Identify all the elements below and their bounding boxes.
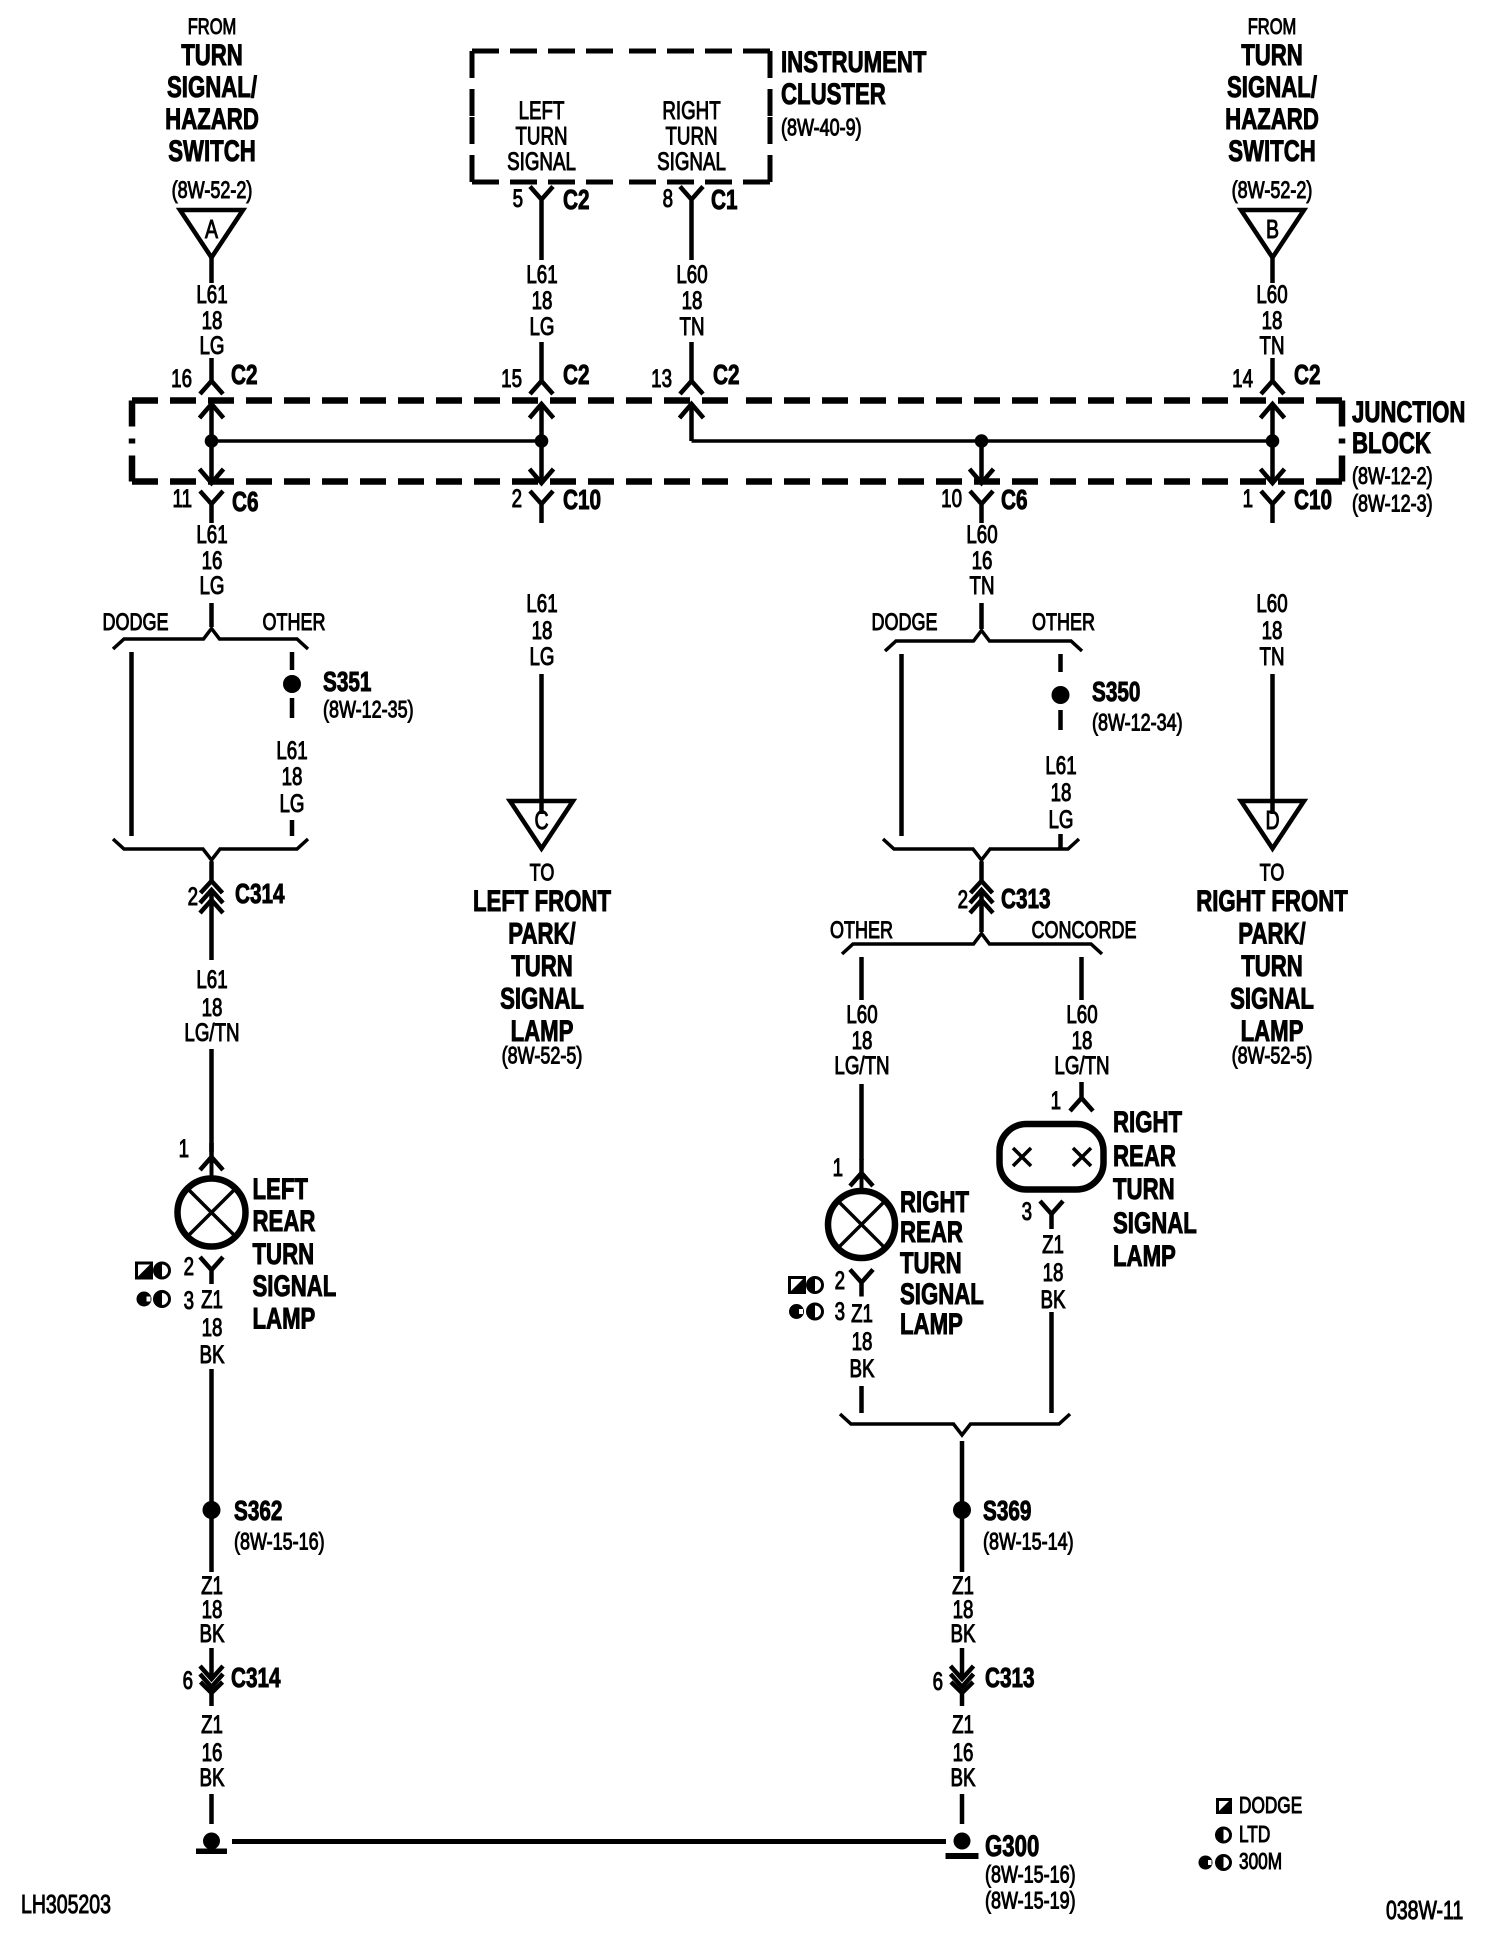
svg-text:TURN: TURN [900, 1246, 962, 1280]
svg-text:LG: LG [200, 331, 225, 359]
svg-text:LG: LG [530, 642, 555, 670]
svg-text:L60: L60 [1066, 1000, 1097, 1028]
svg-text:18: 18 [1051, 778, 1072, 806]
svg-text:L60: L60 [676, 260, 707, 288]
svg-text:2: 2 [958, 885, 968, 913]
svg-text:L60: L60 [966, 520, 997, 548]
svg-text:RIGHT: RIGHT [662, 96, 720, 124]
svg-text:S369: S369 [983, 1496, 1031, 1527]
svg-text:1: 1 [179, 1134, 189, 1162]
svg-text:(8W-52-5): (8W-52-5) [1232, 1043, 1313, 1069]
svg-text:LH305203: LH305203 [21, 1889, 111, 1918]
svg-text:HAZARD: HAZARD [165, 102, 259, 136]
svg-text:C10: C10 [1294, 485, 1332, 516]
svg-text:18: 18 [532, 286, 553, 314]
svg-text:11: 11 [173, 484, 192, 512]
svg-text:(8W-12-35): (8W-12-35) [323, 697, 414, 723]
svg-text:FROM: FROM [1248, 15, 1297, 40]
svg-text:LG: LG [1049, 805, 1074, 833]
svg-text:DODGE: DODGE [872, 610, 938, 636]
svg-text:300M: 300M [1239, 1850, 1282, 1875]
svg-text:L60: L60 [846, 1000, 877, 1028]
svg-text:C: C [534, 805, 548, 834]
svg-text:SIGNAL: SIGNAL [1230, 981, 1314, 1015]
svg-text:CLUSTER: CLUSTER [781, 77, 886, 111]
svg-text:L61: L61 [1045, 751, 1076, 779]
svg-text:TN: TN [680, 312, 705, 340]
svg-text:6: 6 [933, 1667, 943, 1695]
svg-text:BK: BK [850, 1354, 875, 1382]
svg-text:C6: C6 [1001, 485, 1027, 516]
svg-text:B: B [1266, 214, 1279, 243]
svg-text:8: 8 [663, 184, 673, 212]
svg-text:TURN: TURN [181, 38, 243, 72]
svg-text:L61: L61 [526, 260, 557, 288]
svg-text:18: 18 [532, 616, 553, 644]
svg-text:BLOCK: BLOCK [1352, 426, 1431, 460]
svg-text:OTHER: OTHER [830, 918, 893, 944]
svg-text:(8W-52-2): (8W-52-2) [172, 178, 253, 204]
svg-text:(8W-15-19): (8W-15-19) [985, 1888, 1076, 1914]
svg-text:SWITCH: SWITCH [1228, 134, 1316, 168]
svg-text:LG: LG [200, 571, 225, 599]
svg-text:C10: C10 [563, 485, 601, 516]
svg-text:18: 18 [1043, 1258, 1064, 1286]
svg-text:Z1: Z1 [952, 1710, 974, 1738]
svg-text:Z1: Z1 [1042, 1230, 1064, 1258]
svg-text:CONCORDE: CONCORDE [1032, 918, 1137, 944]
svg-text:D: D [1265, 805, 1279, 834]
svg-text:LG: LG [280, 789, 305, 817]
svg-text:C1: C1 [711, 185, 738, 216]
svg-text:TURN: TURN [253, 1237, 315, 1271]
svg-text:(8W-52-5): (8W-52-5) [502, 1043, 583, 1069]
svg-text:(8W-12-2): (8W-12-2) [1352, 464, 1433, 490]
svg-text:A: A [205, 214, 219, 243]
svg-text:FROM: FROM [188, 15, 237, 40]
svg-text:14: 14 [1232, 364, 1253, 392]
svg-text:C313: C313 [985, 1663, 1035, 1694]
svg-text:TO: TO [530, 860, 555, 886]
svg-text:C314: C314 [235, 879, 285, 910]
svg-text:LAMP: LAMP [1113, 1239, 1176, 1273]
svg-text:15: 15 [501, 364, 522, 392]
svg-text:2: 2 [512, 484, 522, 512]
svg-text:RIGHT: RIGHT [900, 1185, 969, 1219]
svg-text:LG/TN: LG/TN [184, 1018, 239, 1046]
svg-text:18: 18 [1262, 616, 1283, 644]
svg-text:(8W-15-14): (8W-15-14) [983, 1529, 1074, 1555]
svg-text:LG: LG [530, 312, 555, 340]
svg-text:10: 10 [941, 484, 962, 512]
svg-text:DODGE: DODGE [103, 610, 169, 636]
svg-text:TN: TN [1260, 331, 1285, 359]
svg-text:SIGNAL: SIGNAL [1113, 1206, 1197, 1240]
svg-text:L60: L60 [1256, 589, 1287, 617]
svg-text:(8W-15-16): (8W-15-16) [985, 1862, 1076, 1888]
svg-text:L61: L61 [196, 965, 227, 993]
svg-text:L60: L60 [1256, 280, 1287, 308]
svg-text:(8W-40-9): (8W-40-9) [781, 115, 862, 141]
svg-text:18: 18 [682, 286, 703, 314]
svg-text:6: 6 [183, 1666, 193, 1694]
svg-text:HAZARD: HAZARD [1225, 102, 1319, 136]
svg-text:SIGNAL: SIGNAL [657, 147, 726, 175]
svg-text:5: 5 [513, 184, 523, 212]
svg-text:SWITCH: SWITCH [168, 134, 256, 168]
svg-text:S362: S362 [234, 1496, 282, 1527]
svg-text:3: 3 [184, 1286, 194, 1314]
svg-text:TO: TO [1260, 860, 1285, 886]
svg-text:18: 18 [282, 762, 303, 790]
svg-text:C313: C313 [1001, 884, 1051, 915]
svg-text:C2: C2 [563, 185, 589, 216]
svg-text:LTD: LTD [1239, 1823, 1270, 1848]
svg-text:L61: L61 [196, 280, 227, 308]
svg-text:LG/TN: LG/TN [1054, 1051, 1109, 1079]
svg-text:TURN: TURN [515, 122, 567, 150]
svg-text:Z1: Z1 [201, 1285, 223, 1313]
svg-text:2: 2 [184, 1252, 194, 1280]
svg-text:REAR: REAR [1113, 1139, 1176, 1173]
svg-text:13: 13 [651, 364, 672, 392]
svg-text:Z1: Z1 [201, 1710, 223, 1738]
svg-text:SIGNAL/: SIGNAL/ [1227, 70, 1318, 104]
svg-text:Z1: Z1 [851, 1299, 873, 1327]
svg-text:(8W-52-2): (8W-52-2) [1232, 178, 1313, 204]
svg-text:C2: C2 [713, 360, 739, 391]
svg-text:LEFT FRONT: LEFT FRONT [473, 884, 611, 918]
svg-text:038W-11: 038W-11 [1386, 1895, 1463, 1924]
svg-text:BK: BK [200, 1763, 225, 1791]
svg-text:16: 16 [171, 364, 192, 392]
svg-text:TURN: TURN [511, 949, 573, 983]
svg-text:18: 18 [202, 1313, 223, 1341]
svg-text:RIGHT: RIGHT [1113, 1105, 1182, 1139]
svg-text:REAR: REAR [900, 1215, 963, 1249]
svg-text:(8W-12-3): (8W-12-3) [1352, 491, 1433, 517]
svg-text:PARK/: PARK/ [1238, 916, 1306, 950]
svg-text:BK: BK [951, 1763, 976, 1791]
svg-text:C6: C6 [232, 487, 258, 518]
svg-text:BK: BK [200, 1619, 225, 1647]
svg-text:LAMP: LAMP [253, 1301, 316, 1335]
svg-text:BK: BK [951, 1619, 976, 1647]
svg-text:BK: BK [200, 1340, 225, 1368]
svg-text:JUNCTION: JUNCTION [1352, 395, 1465, 429]
svg-text:LEFT: LEFT [253, 1172, 308, 1206]
svg-text:G300: G300 [985, 1829, 1039, 1863]
svg-text:3: 3 [835, 1297, 845, 1325]
svg-text:S350: S350 [1092, 677, 1140, 708]
svg-text:RIGHT FRONT: RIGHT FRONT [1196, 884, 1348, 918]
svg-text:(8W-15-16): (8W-15-16) [234, 1529, 325, 1555]
svg-text:TURN: TURN [1241, 949, 1303, 983]
svg-text:TURN: TURN [1241, 38, 1303, 72]
svg-text:L61: L61 [276, 736, 307, 764]
svg-text:OTHER: OTHER [1032, 610, 1095, 636]
svg-text:C314: C314 [231, 1663, 281, 1694]
svg-text:3: 3 [1022, 1197, 1032, 1225]
svg-text:L61: L61 [196, 520, 227, 548]
svg-text:S351: S351 [323, 667, 372, 698]
svg-text:REAR: REAR [253, 1204, 316, 1238]
svg-text:TURN: TURN [665, 122, 717, 150]
svg-text:1: 1 [1243, 484, 1253, 512]
svg-text:TN: TN [1260, 642, 1285, 670]
svg-text:L61: L61 [526, 589, 557, 617]
svg-text:BK: BK [1041, 1285, 1066, 1313]
svg-text:2: 2 [188, 882, 198, 910]
svg-text:1: 1 [1051, 1086, 1061, 1114]
svg-text:OTHER: OTHER [263, 610, 326, 636]
svg-text:SIGNAL/: SIGNAL/ [167, 70, 258, 104]
svg-text:1: 1 [833, 1153, 843, 1181]
svg-text:2: 2 [835, 1266, 845, 1294]
svg-text:SIGNAL: SIGNAL [500, 981, 584, 1015]
svg-text:TURN: TURN [1113, 1172, 1175, 1206]
svg-text:18: 18 [852, 1327, 873, 1355]
svg-text:LEFT: LEFT [519, 96, 565, 124]
svg-text:SIGNAL: SIGNAL [253, 1269, 337, 1303]
svg-text:INSTRUMENT: INSTRUMENT [781, 45, 926, 79]
svg-text:PARK/: PARK/ [508, 916, 576, 950]
svg-text:C2: C2 [563, 360, 589, 391]
svg-text:DODGE: DODGE [1239, 1794, 1302, 1819]
svg-text:SIGNAL: SIGNAL [900, 1277, 984, 1311]
svg-text:SIGNAL: SIGNAL [507, 147, 576, 175]
svg-text:(8W-12-34): (8W-12-34) [1092, 710, 1183, 736]
svg-text:LAMP: LAMP [900, 1307, 963, 1341]
svg-text:C2: C2 [231, 360, 257, 391]
svg-text:TN: TN [970, 571, 995, 599]
svg-text:C2: C2 [1294, 360, 1320, 391]
svg-text:LG/TN: LG/TN [834, 1051, 889, 1079]
